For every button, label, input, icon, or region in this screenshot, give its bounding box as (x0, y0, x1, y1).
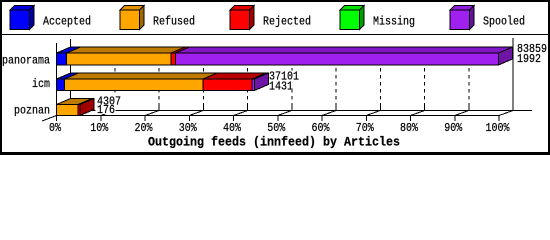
svg-text:1992: 1992 (517, 52, 541, 66)
bar poznan: right side face (80, 99, 94, 116)
legend cube Refused (orange) (120, 6, 144, 30)
svg-text:90%: 90% (444, 121, 463, 135)
legend cube Rejected (red) (230, 6, 254, 30)
diagonal tick connectors front->back (42, 111, 513, 122)
back x-axis line (71, 110, 533, 112)
value labels poznan (96, 96, 122, 106)
svg-text:Rejected: Rejected (263, 15, 311, 29)
svg-text:70%: 70% (356, 121, 375, 135)
svg-text:176: 176 (97, 103, 115, 117)
bar poznan: front faces (57, 105, 81, 116)
legend cube Spooled (purple) (450, 6, 474, 30)
outer border frame (1, 1, 549, 154)
svg-text:panorama: panorama (2, 54, 50, 68)
origin down-left diagonal (42, 116, 57, 122)
back y-axis line (70, 39, 72, 111)
svg-text:Refused: Refused (153, 15, 195, 29)
svg-text:20%: 20% (135, 121, 154, 135)
front ticks (57, 116, 500, 122)
bar panorama: top faces (57, 47, 513, 65)
svg-text:Outgoing feeds (innfeed) by Ar: Outgoing feeds (innfeed) by Articles (148, 136, 400, 150)
front y-axis line (56, 43, 58, 116)
front x-axis line (56, 115, 499, 117)
x axis labels (49, 121, 510, 135)
legend cube Missing (green) (340, 6, 364, 30)
svg-text:Spooled: Spooled (483, 15, 525, 29)
legend separator line (2, 34, 548, 36)
bar icm: right side face (255, 73, 269, 91)
svg-text:60%: 60% (312, 121, 331, 135)
back ticks (115, 105, 469, 111)
svg-text:1431: 1431 (269, 80, 293, 94)
svg-text:30%: 30% (179, 121, 198, 135)
legend cube Accepted (blue) (10, 6, 34, 30)
svg-text:10%: 10% (90, 121, 109, 135)
right back axis line (100%) (512, 38, 514, 111)
dashed gridlines (back plane) (115, 47, 469, 111)
svg-text:Missing: Missing (373, 15, 415, 29)
svg-text:0%: 0% (49, 121, 62, 135)
svg-text:80%: 80% (400, 121, 419, 135)
svg-text:Accepted: Accepted (43, 15, 91, 29)
bar panorama: right side face (499, 47, 513, 65)
bar icm: top faces (57, 73, 269, 91)
svg-text:poznan: poznan (14, 104, 50, 118)
bar icm: front faces (57, 79, 255, 91)
bar panorama: front faces (57, 53, 499, 65)
svg-text:icm: icm (32, 77, 50, 91)
svg-text:40%: 40% (223, 121, 242, 135)
bar poznan: top faces (57, 99, 95, 116)
svg-text:50%: 50% (267, 121, 286, 135)
value labels icm (269, 71, 301, 81)
svg-text:100%: 100% (486, 121, 511, 135)
